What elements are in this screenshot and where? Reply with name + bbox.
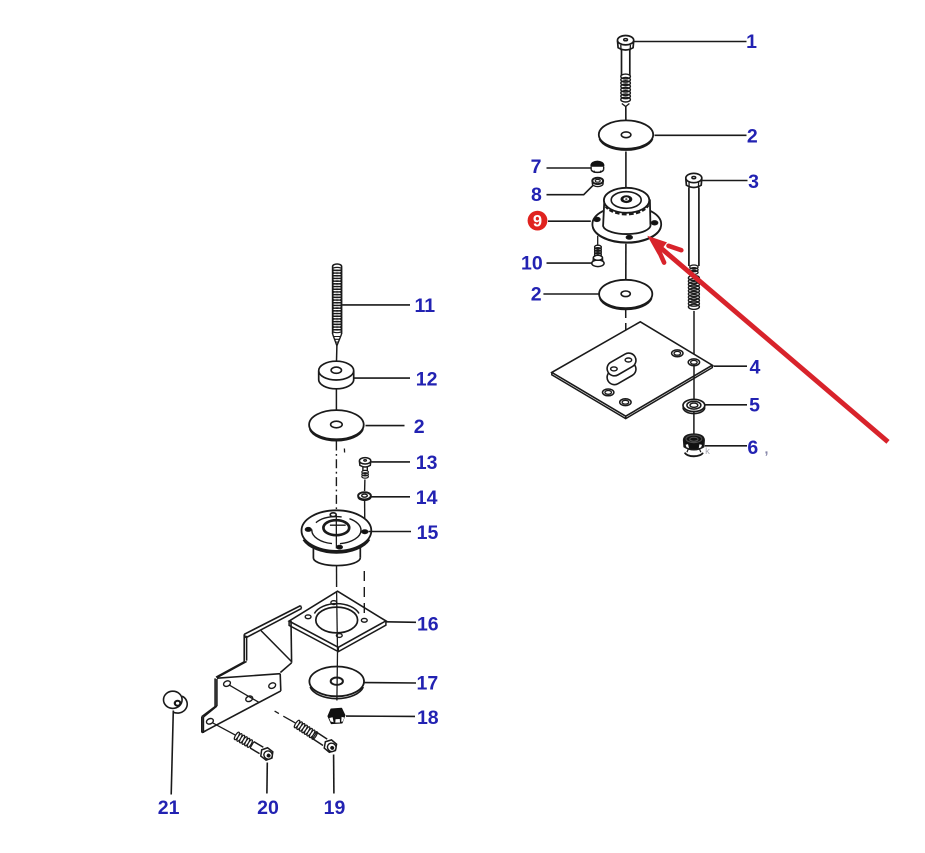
flange 15 inner groove — [312, 517, 361, 544]
leader line 13 — [372, 461, 411, 463]
svg-text:19: 19 — [324, 797, 346, 819]
stud 11 — [333, 264, 342, 267]
washer 2 left — [309, 410, 364, 439]
leader line 4 — [714, 365, 748, 367]
leader line 17 — [364, 682, 416, 684]
alignment line holeD-bolt20 — [212, 723, 235, 735]
bracket top tab strip — [244, 606, 300, 635]
bolt 1 tip — [622, 104, 630, 107]
wire spacer12-washer2c — [335, 389, 337, 410]
dashed wire bolt13-plate16 — [363, 571, 365, 618]
wire centerline washer2-mount9 — [625, 152, 627, 189]
wire bolt3-plate4 — [693, 311, 695, 360]
svg-text:8: 8 — [531, 184, 542, 206]
leader line 3 — [703, 180, 748, 182]
bolt 19 — [292, 719, 339, 755]
leader line 15 — [369, 531, 412, 533]
svg-text:k: k — [705, 446, 710, 457]
bolt 1 hex head — [618, 41, 634, 50]
leader line 16 — [387, 621, 417, 624]
alignment line holeA-holeC-bolt19 — [230, 685, 260, 702]
nut 6 — [684, 434, 705, 450]
leader line 10 — [547, 262, 593, 264]
leader line 1 — [634, 41, 746, 43]
svg-text:3: 3 — [748, 171, 759, 193]
svg-text:10: 10 — [521, 252, 543, 274]
leader line 9 — [548, 220, 591, 222]
bracket gusset bottom edge — [280, 663, 291, 673]
svg-text:16: 16 — [417, 613, 439, 635]
svg-text:9: 9 — [533, 213, 542, 231]
bolt 3 threads — [690, 265, 698, 274]
svg-text:15: 15 — [417, 522, 439, 544]
wire plate16-washer17 — [336, 652, 339, 701]
washer 2 middle — [599, 280, 652, 308]
red highlight circle 9 — [528, 211, 548, 231]
leader line 20 — [266, 763, 268, 794]
wire flange15-plate16 — [336, 566, 338, 588]
bolt 20 — [233, 731, 276, 763]
bracket hole A — [223, 680, 232, 688]
flange 15 centerline cross — [335, 515, 337, 549]
engine mount 9 body cylinder — [603, 200, 650, 234]
bolt 13 hex head — [359, 461, 370, 467]
svg-text:7: 7 — [531, 156, 542, 178]
svg-text:,: , — [765, 441, 769, 457]
bracket gusset right edge — [290, 621, 293, 663]
plate 16 center hole — [314, 604, 359, 614]
bolt 13 shank and threads — [362, 467, 364, 471]
bracket hole D — [206, 717, 215, 725]
engine mount 9 top face — [604, 188, 649, 213]
svg-text:2: 2 — [531, 283, 542, 305]
bracket bar bottom diagonal — [206, 691, 281, 731]
wire washer14-flange15 — [364, 500, 366, 529]
svg-text:20: 20 — [257, 797, 279, 819]
svg-text:14: 14 — [416, 487, 438, 509]
wire centerline bolt1-washer2 — [625, 107, 627, 132]
engine mount 9 knurl band — [606, 205, 649, 214]
plate 4 boss — [604, 350, 638, 387]
engine mount 9 flange holes — [594, 217, 601, 221]
svg-text:1: 1 — [746, 31, 757, 53]
engine mount 9 flange — [592, 206, 661, 242]
wire bolt13-washer14 — [364, 480, 366, 492]
washer 2 top — [599, 120, 653, 148]
svg-text:18: 18 — [417, 707, 439, 729]
plate 16 — [289, 591, 386, 647]
leader line 12 — [355, 377, 411, 379]
wire stud11-spacer12 — [336, 346, 338, 361]
flange 15 center hole — [323, 520, 349, 535]
flange 15 bolt holes — [305, 527, 311, 531]
washer 14 — [358, 492, 371, 499]
svg-text:2: 2 — [414, 416, 425, 438]
leader line 7 — [547, 167, 592, 169]
bolt 1 shank — [621, 50, 623, 75]
bracket hole C — [245, 695, 254, 703]
leader line 19 — [333, 755, 335, 794]
wire plate16 centerline — [336, 592, 339, 651]
washer 5 — [683, 399, 705, 411]
red arrow — [655, 243, 888, 442]
washer 17 — [309, 667, 364, 697]
wire bolt3 through plate to washer5 — [693, 364, 695, 401]
bracket left step edges — [214, 678, 216, 706]
leader line 21 — [171, 711, 173, 795]
svg-text:5: 5 — [749, 395, 760, 417]
svg-text:4: 4 — [749, 357, 760, 379]
engine mount 9 inner ring — [611, 192, 641, 209]
plate 16 small holes — [331, 601, 337, 605]
flange 15 — [302, 510, 372, 551]
washer 8 — [592, 178, 603, 184]
svg-text:6: 6 — [747, 437, 758, 459]
bolt 10 — [594, 245, 601, 256]
leader line 2 left — [366, 425, 405, 427]
svg-text:12: 12 — [416, 368, 438, 390]
bracket bar top edge — [217, 674, 280, 679]
leader line 11 — [342, 304, 410, 306]
bracket bar right cap — [279, 674, 282, 691]
bracket hole B — [268, 682, 277, 690]
bolt 1 threads — [621, 74, 631, 102]
wire mount9-washer2b — [625, 244, 627, 280]
leader line 18 — [346, 715, 415, 717]
leader line 8 — [547, 185, 594, 195]
leader line 14 — [371, 496, 410, 498]
flange 15 neck — [312, 548, 314, 558]
flange 15 bottom thickness — [304, 539, 369, 552]
bracket web bottom-left diagonal — [217, 661, 247, 677]
plate 4 holes — [672, 350, 683, 357]
bolt 3 hex head — [686, 179, 702, 188]
leader line 2 — [655, 134, 747, 136]
svg-text:13: 13 — [416, 452, 438, 474]
plate 4 — [552, 322, 713, 416]
svg-text:17: 17 — [417, 673, 439, 695]
svg-text:2: 2 — [747, 126, 758, 148]
svg-text:11: 11 — [414, 295, 435, 317]
leader line 6 — [705, 445, 747, 447]
bolt 3 shank — [688, 188, 690, 267]
leader line 2 middle — [543, 293, 599, 295]
engine mount 9 center hole — [621, 196, 632, 203]
bracket gusset fold line — [261, 631, 292, 662]
dash-dot centerline washer2c-flange15 — [335, 442, 337, 510]
wire mount9-bolt10 — [597, 236, 599, 245]
spacer 12 — [318, 371, 320, 380]
bracket web left edge — [243, 634, 245, 662]
nut 18 — [328, 709, 345, 724]
wire washer5-nut6 — [693, 412, 695, 437]
spacer 21 — [173, 696, 187, 713]
dashed centerline washer2b-plate4 — [625, 309, 627, 357]
svg-text:21: 21 — [158, 797, 180, 819]
leader line 5 — [705, 404, 747, 406]
nut 7 — [591, 161, 604, 169]
